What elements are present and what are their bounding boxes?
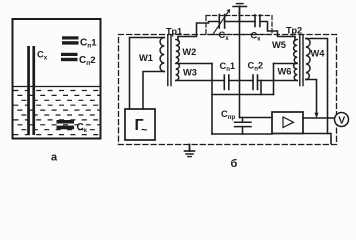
liquid texture dashes (14, 91, 100, 135)
wire W2/W3 centre tap (176, 63, 212, 65)
wire stub x261 down (260, 81, 262, 95)
winding W1 (160, 38, 164, 72)
bottom rail (212, 133, 272, 135)
svg-text:V: V (338, 115, 345, 127)
ground (top, sensor) (233, 4, 247, 22)
capacitor Cp1 (circuit) (224, 75, 229, 90)
generator G box (125, 109, 155, 140)
wire W1 bottom to generator (143, 72, 164, 110)
liquid surface line (13, 86, 99, 88)
svg-text:W1: W1 (139, 53, 153, 63)
wire bridge row middle (229, 80, 253, 82)
tank vessel (13, 19, 101, 139)
voltmeter V (335, 113, 349, 127)
amplifier box (272, 112, 303, 134)
arrowhead onto output wire (315, 113, 318, 117)
wire vertical centre tap Tr2 down to rail (273, 64, 275, 95)
capacitor Cx (variable, sensor) (213, 10, 230, 35)
wire W1 top to generator (130, 38, 165, 110)
sensor dashed box (206, 16, 272, 35)
capacitor Cpr (235, 118, 252, 135)
wire amplifier input (240, 117, 273, 119)
main dashed enclosure (119, 35, 337, 145)
wire amp bottom to border (303, 134, 331, 144)
svg-text:а: а (51, 152, 58, 164)
wire W5/W6 centre tap (274, 63, 298, 65)
capacitor Cp1 (reference capacitor in gas space) (62, 36, 79, 44)
svg-text:Тр2: Тр2 (286, 26, 302, 36)
transformer Tr1 core (168, 35, 171, 86)
wire amplifier output (303, 117, 334, 119)
transformer Tr2 core (300, 35, 303, 86)
wire vertical from centre tap to bottom rail (211, 64, 213, 135)
wire W4 top tap down right side (306, 39, 328, 134)
node column from sensor to amplifier input (239, 22, 241, 118)
capacitor Ck (reference capacitor in liquid) (57, 120, 75, 129)
winding W2-W3 (176, 40, 180, 81)
amplifier triangle (283, 117, 294, 128)
common rail between centre taps (212, 94, 274, 96)
wire staircase from Ck down-right to winding W5 (260, 22, 295, 41)
electrode pair Cx (sensor electrodes) (27, 46, 35, 135)
svg-text:б: б (231, 158, 238, 170)
wire bridge row right (258, 80, 298, 82)
svg-text:~: ~ (141, 125, 148, 137)
svg-text:W2: W2 (182, 47, 196, 57)
capacitor Ck (circuit, fixed) (255, 15, 260, 27)
svg-text:W6: W6 (278, 67, 292, 77)
capacitor Cp2 (reference capacitor in gas space) (61, 53, 78, 61)
winding W4 (306, 39, 310, 80)
ground (bottom) (185, 145, 195, 157)
svg-text:W4: W4 (311, 49, 326, 59)
capacitor Cp2 (circuit) (253, 75, 258, 90)
svg-text:W3: W3 (183, 68, 197, 78)
winding W5-W6 (294, 40, 298, 81)
wire staircase from Cx down-left to winding W2 (178, 22, 219, 41)
wire W4 bottom tap to output (306, 80, 317, 115)
svg-text:W5: W5 (272, 40, 286, 50)
wire top bus (225, 21, 255, 23)
wire bridge row left (176, 80, 225, 82)
